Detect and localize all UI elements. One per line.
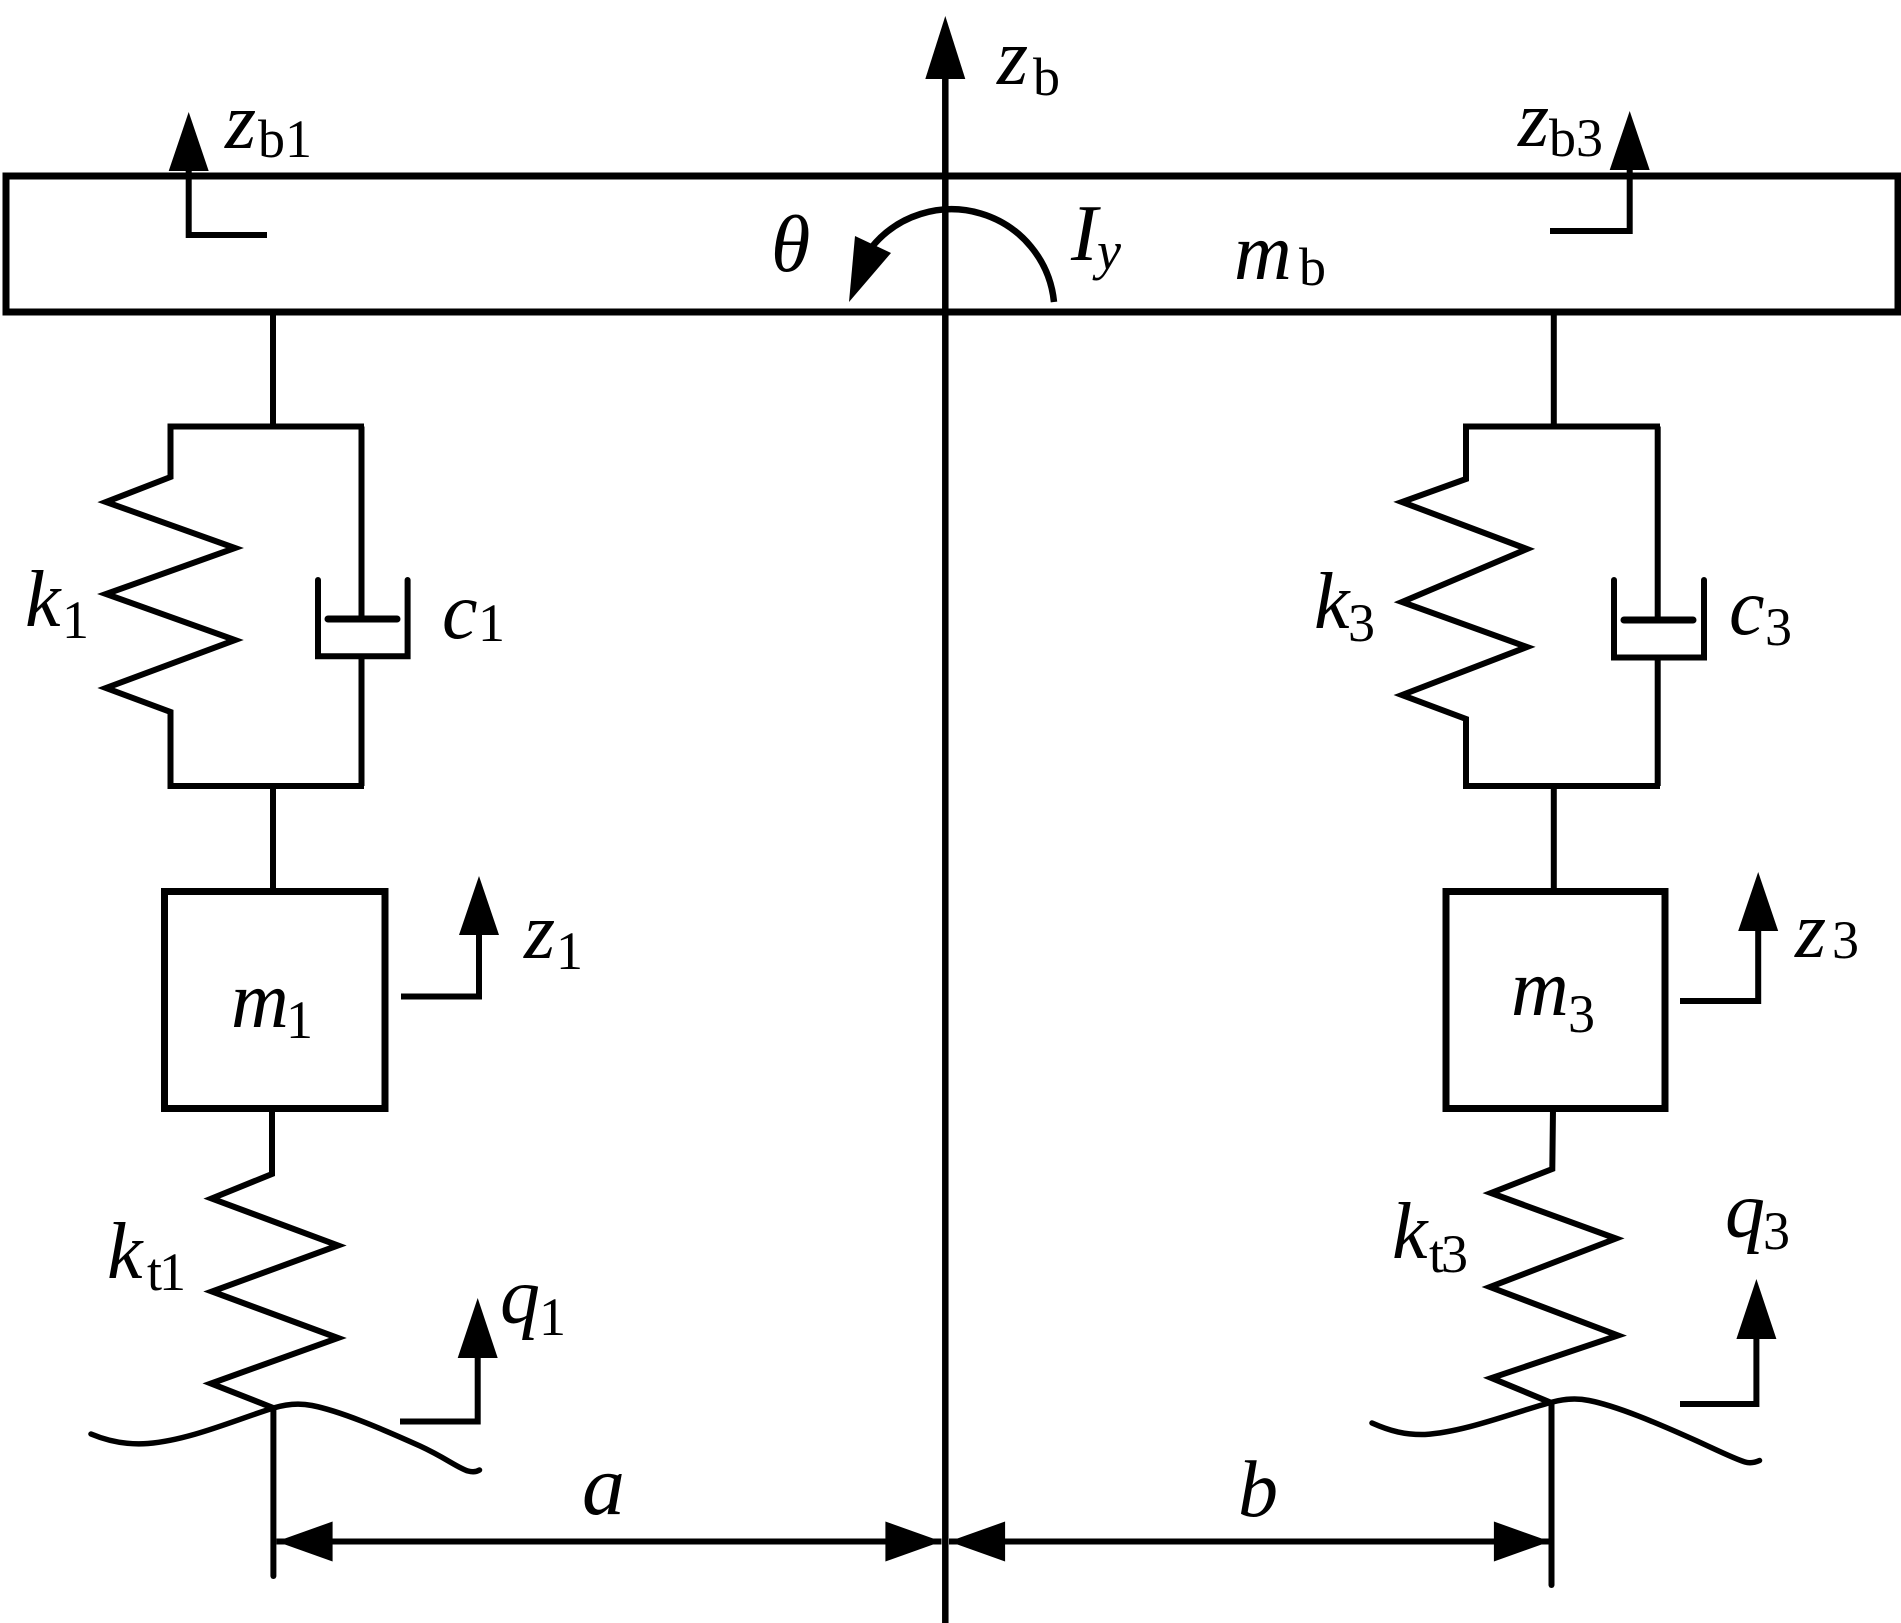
svg-text:z: z <box>1517 76 1549 164</box>
svg-text:m: m <box>231 957 289 1045</box>
spring k3 <box>1402 427 1527 787</box>
damper c1 <box>359 427 365 620</box>
svg-text:k: k <box>25 556 62 644</box>
svg-text:z: z <box>224 78 256 166</box>
svg-text:c: c <box>1729 564 1765 652</box>
svg-text:m: m <box>1511 945 1569 1033</box>
label q3 <box>1725 1167 1790 1261</box>
damper c3 <box>1655 427 1661 621</box>
arrow q1 <box>400 1340 478 1422</box>
arrow z3 <box>1680 910 1758 1001</box>
wire: beam to front suspension <box>270 312 276 425</box>
svg-text:b: b <box>1033 47 1060 107</box>
svg-text:q: q <box>1725 1167 1765 1255</box>
rear suspension top bar <box>1463 424 1660 430</box>
wire: suspension to mass m3 <box>1551 786 1557 892</box>
label c3 <box>1729 564 1792 657</box>
tire spring kt3 <box>1490 1109 1618 1403</box>
spring k1 <box>106 427 235 787</box>
label a <box>582 1437 625 1533</box>
svg-text:3: 3 <box>1763 1201 1790 1261</box>
label z_b <box>996 14 1060 107</box>
svg-text:1: 1 <box>286 990 313 1050</box>
svg-text:1: 1 <box>556 921 583 981</box>
label kt3 <box>1392 1188 1466 1284</box>
svg-text:z: z <box>1794 887 1826 975</box>
extension line below wheel 1 <box>270 1408 276 1576</box>
arrow z1 <box>401 910 479 997</box>
label z1 <box>523 888 583 981</box>
svg-text:a: a <box>582 1437 625 1533</box>
svg-text:k: k <box>1314 558 1351 646</box>
label I_y <box>1070 190 1121 281</box>
pitch rotation arrow theta arc <box>871 209 1054 302</box>
label z_b1 <box>224 78 312 169</box>
label k3 <box>1314 558 1375 653</box>
svg-text:1: 1 <box>478 593 505 653</box>
front suspension top bar <box>168 424 365 430</box>
svg-text:t1: t1 <box>147 1242 183 1302</box>
mass m1 <box>165 892 386 1109</box>
svg-text:b: b <box>1238 1446 1278 1534</box>
svg-text:m: m <box>1234 209 1292 297</box>
svg-text:k: k <box>1392 1188 1429 1276</box>
road profile under wheel 3 <box>1372 1399 1760 1463</box>
svg-text:3: 3 <box>1568 984 1595 1044</box>
svg-text:t3: t3 <box>1429 1224 1466 1284</box>
tire spring kt1 <box>211 1109 338 1409</box>
body beam m_b <box>6 176 1898 312</box>
label k1 <box>25 556 89 650</box>
label theta <box>771 201 810 289</box>
svg-text:b3: b3 <box>1549 108 1603 168</box>
road profile under wheel 1 <box>91 1404 480 1472</box>
wire: suspension to mass m1 <box>270 786 276 892</box>
arrow q3 <box>1680 1320 1756 1404</box>
label q1 <box>500 1253 566 1347</box>
svg-text:c: c <box>442 568 478 656</box>
arrow z_b1 <box>189 150 267 235</box>
dimension a <box>277 1539 942 1545</box>
label c1 <box>442 568 505 656</box>
svg-text:3: 3 <box>1348 593 1375 653</box>
svg-text:z: z <box>523 888 555 976</box>
front suspension bottom bar <box>168 783 365 789</box>
arrow z_b3 <box>1550 150 1630 231</box>
svg-text:3: 3 <box>1832 910 1859 970</box>
label m1 <box>231 957 313 1050</box>
svg-text:b: b <box>1299 237 1326 297</box>
label m3 <box>1511 945 1595 1044</box>
label b <box>1238 1446 1278 1534</box>
dimension b <box>949 1539 1550 1545</box>
mass m3 <box>1446 892 1665 1109</box>
label z3 <box>1794 887 1859 975</box>
extension line below wheel 3 <box>1549 1403 1555 1586</box>
svg-text:θ: θ <box>771 201 810 289</box>
wire: beam to rear suspension <box>1551 312 1557 425</box>
rear suspension bottom bar <box>1463 783 1660 789</box>
svg-text:3: 3 <box>1765 597 1792 657</box>
svg-text:q: q <box>500 1253 540 1341</box>
svg-text:1: 1 <box>539 1287 566 1347</box>
axis z_b (vertical centre line) <box>942 70 949 1623</box>
svg-text:k: k <box>107 1208 144 1296</box>
label kt1 <box>107 1208 183 1302</box>
label m_b <box>1234 209 1326 297</box>
svg-text:1: 1 <box>62 590 89 650</box>
label z_b3 <box>1517 76 1603 168</box>
svg-text:y: y <box>1092 221 1121 281</box>
svg-text:b1: b1 <box>258 109 312 169</box>
svg-text:z: z <box>996 14 1028 102</box>
